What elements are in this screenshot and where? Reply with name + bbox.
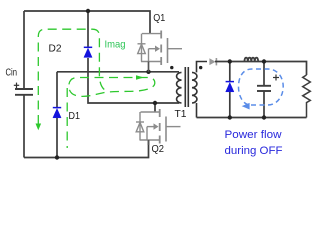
svg-text:D1: D1	[69, 111, 81, 122]
svg-text:Power flow: Power flow	[225, 129, 282, 141]
svg-text:Imag: Imag	[105, 39, 126, 51]
svg-text:Cin: Cin	[6, 68, 18, 79]
svg-text:during OFF: during OFF	[225, 145, 283, 157]
svg-text:D2: D2	[49, 44, 62, 55]
svg-text:Q1: Q1	[153, 13, 165, 24]
svg-text:Q2: Q2	[152, 144, 165, 155]
svg-text:T1: T1	[175, 109, 187, 120]
